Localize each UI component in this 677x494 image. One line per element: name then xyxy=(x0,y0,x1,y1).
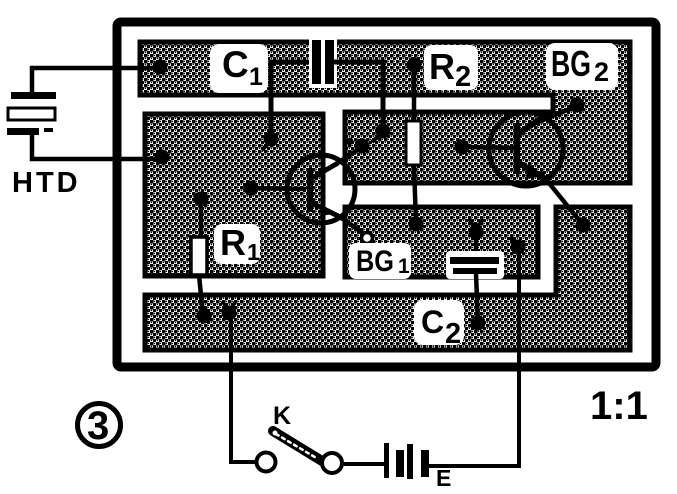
pad BG2 emitter on P4 xyxy=(576,218,591,233)
svg-text:E: E xyxy=(436,465,451,491)
svg-text:C: C xyxy=(421,304,444,340)
svg-text:R: R xyxy=(429,46,455,87)
wire C2 bottom lead xyxy=(476,274,478,323)
capacitor C1 plates xyxy=(309,37,337,88)
figure number 3 xyxy=(78,404,121,449)
resistor R2 xyxy=(406,121,421,165)
pad R1 bottom on P4 xyxy=(197,309,212,324)
pad C2 bottom on P4 xyxy=(471,316,486,331)
wire battery to board xyxy=(429,250,519,466)
svg-text:1: 1 xyxy=(249,63,263,91)
wire BG1 collector lead xyxy=(336,147,362,164)
pad BG1 emitter hole on P3 xyxy=(362,233,373,244)
pad C1 right on P1 xyxy=(376,124,391,139)
wire BG2 base lead xyxy=(462,147,514,148)
pad R2 top on P1 xyxy=(407,58,422,73)
svg-text:HTD: HTD xyxy=(12,167,81,199)
wire C1 left lead xyxy=(271,62,314,139)
label BG2 xyxy=(546,43,618,90)
wire R1 top lead xyxy=(199,199,204,237)
svg-text:2: 2 xyxy=(455,61,471,93)
pad BG1 collector on P1 xyxy=(355,139,370,154)
pad HTD top on P1 xyxy=(153,60,168,75)
copper pour P4 bottom strip with right column xyxy=(145,207,630,350)
switch K xyxy=(257,431,343,474)
transistor BG2 xyxy=(489,112,563,186)
pad R2 bottom on P3 xyxy=(409,217,424,232)
pad R1 top on P2 xyxy=(194,192,209,207)
pad BG2 base on P1 xyxy=(455,140,470,155)
wire to switch K xyxy=(231,318,256,462)
label BG1 xyxy=(349,243,411,279)
label C2 xyxy=(414,300,464,350)
pad HTD bottom on P2 xyxy=(155,150,170,165)
svg-text:1: 1 xyxy=(398,255,410,278)
pad BG2 collector on P1 xyxy=(570,98,585,113)
svg-text:2: 2 xyxy=(445,318,461,350)
wire R1 bottom lead xyxy=(199,275,203,316)
svg-text:1: 1 xyxy=(247,239,260,265)
svg-text:2: 2 xyxy=(594,57,609,87)
wire HTD top lead xyxy=(32,68,160,92)
wire R2 top lead xyxy=(412,65,417,121)
label C1 xyxy=(210,44,268,93)
pad switch feed on P4 xyxy=(222,306,237,321)
battery E xyxy=(384,443,429,479)
svg-text:K: K xyxy=(273,402,291,430)
wire switch to battery xyxy=(342,462,384,466)
wire C2 top lead xyxy=(474,232,479,257)
wire HTD bottom lead xyxy=(32,134,162,159)
wire BG1 emitter lead xyxy=(337,215,363,233)
board outline xyxy=(117,22,656,367)
label R1 xyxy=(214,222,260,265)
transistor BG1 xyxy=(287,155,355,223)
copper pour P1 top strip and right block xyxy=(140,42,630,183)
svg-text:BG: BG xyxy=(356,245,394,278)
svg-text:3: 3 xyxy=(87,404,109,448)
copper pour P2 left block xyxy=(145,114,323,276)
wire BG2 collector lead xyxy=(533,106,577,124)
svg-text:R: R xyxy=(220,222,246,263)
resistor R1 xyxy=(191,237,207,275)
pad BG1 base on P2 xyxy=(244,181,259,196)
pad C1 left on P2 xyxy=(264,132,279,147)
pad C2 top on P3 xyxy=(469,225,484,240)
capacitor C2 plates xyxy=(446,251,504,279)
earphone HTD xyxy=(7,92,56,135)
pad battery on P3 xyxy=(511,240,526,255)
wire C1 right lead xyxy=(334,62,383,131)
copper pour P3 middle lower block xyxy=(345,207,538,277)
wire BG2 emitter lead xyxy=(540,172,583,225)
svg-text:C: C xyxy=(222,44,249,85)
node speck xyxy=(296,274,300,278)
label R2 xyxy=(424,45,478,93)
wire R2 bottom lead xyxy=(414,165,416,224)
wire BG1 base lead xyxy=(251,188,306,189)
svg-text:BG: BG xyxy=(551,43,591,84)
svg-text:1:1: 1:1 xyxy=(590,384,648,428)
